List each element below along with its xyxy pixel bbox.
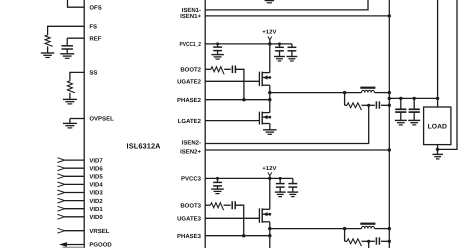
wire Q3 source to phase3 node [268, 222, 271, 231]
IC U1 ISL6312A left edge [83, 0, 85, 248]
LOAD label [428, 123, 447, 130]
svg-text:UGATE3: UGATE3 [177, 216, 202, 223]
svg-text:VID5: VID5 [89, 174, 103, 181]
LOAD box [424, 107, 451, 145]
wire VID0 with input arrow [57, 214, 84, 219]
wire OVPSEL [70, 119, 84, 124]
svg-text:BOOT2: BOOT2 [180, 67, 201, 74]
pin PVCC3 label [181, 176, 202, 183]
wire PHASE3 [205, 234, 271, 237]
svg-text:ISEN2-: ISEN2- [182, 140, 201, 147]
svg-text:UGATE2: UGATE2 [177, 79, 202, 86]
svg-text:LGATE2: LGATE2 [178, 118, 202, 125]
svg-text:PHASE3: PHASE3 [177, 233, 202, 240]
pin UGATE3 label [177, 216, 202, 223]
pin PHASE3 label [177, 233, 202, 240]
capacitor on REF pin [61, 46, 72, 54]
ground below Q2 [263, 130, 277, 135]
svg-text:VID4: VID4 [89, 182, 103, 189]
pin VRSEL label [89, 228, 109, 235]
decoupling capacitor C on PVCC1_2 [211, 44, 224, 59]
output capacitor C_out2 [408, 98, 420, 125]
wire LOAD bottom to ground [436, 145, 439, 155]
wire PHASE2 [205, 98, 271, 101]
capacitor C sense channel3 [369, 237, 391, 244]
supply +12V channel3 [262, 166, 276, 180]
transistor Q3 high-side FET channel3 [259, 208, 271, 223]
svg-text:ISL6312A: ISL6312A [127, 142, 162, 151]
svg-text:+12V: +12V [262, 29, 276, 35]
resistor R sense channel3 [345, 239, 371, 246]
IC U1 ISL6312A right edge [204, 0, 206, 248]
svg-text:FS: FS [89, 23, 97, 30]
wire PGOOD with output arrow [59, 242, 84, 247]
svg-text:VID0: VID0 [89, 214, 103, 221]
transistor Q2 low-side FET channel2 [259, 112, 271, 125]
wire phase3 to inductor L3 [270, 227, 347, 230]
resistor on SS pin [67, 81, 75, 99]
wire BOOT2 cap to phase2 node [235, 69, 245, 101]
pin LGATE2 label [178, 118, 202, 125]
pin ISEN2+ label [180, 149, 201, 156]
bulk capacitor on +12V rail B [287, 44, 298, 61]
wire VID3 with input arrow [57, 190, 84, 195]
wire ISEN1+ to output rail [205, 14, 391, 17]
wire Q1 source to phase2 node [268, 85, 271, 94]
wire ISEN1- to top edge [205, 0, 368, 10]
wire channel1 return from top edge to load ground [438, 0, 458, 149]
svg-text:VID7: VID7 [89, 157, 103, 164]
svg-text:VRSEL: VRSEL [89, 228, 109, 235]
svg-text:PHASE2: PHASE2 [177, 97, 202, 104]
pin FS label [89, 23, 97, 30]
wire UGATE2 to Q1 gate [205, 80, 259, 82]
wire VID5 with input arrow [57, 174, 84, 179]
wire VRSEL with input arrow [57, 228, 84, 233]
wire VID2 with input arrow [57, 198, 84, 203]
wire UGATE3 to Q3 gate [205, 217, 259, 219]
wire Q2 source to ground [269, 124, 271, 130]
wire VID7 with input arrow [57, 158, 84, 163]
pin UGATE2 label [177, 79, 202, 86]
bootstrap capacitor C BOOT2 [232, 66, 235, 74]
resistor on BOOT2 [211, 67, 231, 75]
pin ISEN1- label [182, 7, 201, 14]
wire output rail VOUT [388, 0, 390, 248]
pin ISEN2- label [182, 140, 201, 147]
ground below LOAD [432, 154, 443, 159]
wire OFS to top edge [68, 0, 85, 7]
wire BOOT3 cap to phase3 node [235, 205, 245, 237]
wire FS [48, 26, 85, 35]
output capacitor C_out1 [395, 98, 407, 125]
wire SS [70, 72, 84, 81]
svg-text:BOOT3: BOOT3 [180, 202, 201, 209]
resistor R sense channel2 [345, 103, 371, 110]
svg-text:PGOOD: PGOOD [89, 242, 112, 248]
wire phase3 down to bottom edge [269, 229, 271, 248]
svg-text:REF: REF [89, 35, 101, 42]
IC U1 label ISL6312A [127, 142, 162, 151]
pin OFS label [89, 4, 101, 11]
svg-text:VID2: VID2 [89, 198, 103, 205]
wire VID4 with input arrow [57, 182, 84, 187]
pin VID3 label [89, 190, 103, 197]
pin VID6 label [89, 165, 103, 172]
wire PVCC1_2 [205, 42, 270, 45]
inductor L3 [345, 224, 391, 231]
svg-text:LOAD: LOAD [428, 123, 447, 130]
wire +12V to Q3 drain [269, 178, 271, 209]
partial pin wire cut at bottom edge [63, 246, 85, 248]
svg-text:VID3: VID3 [89, 190, 103, 197]
bulk capacitor on +12V rail A [274, 44, 285, 61]
inductor L2 [345, 88, 391, 95]
wire VID1 with input arrow [57, 206, 84, 211]
pin REF label [89, 35, 101, 42]
ground of channel1 low-side FET (cut at top edge) [265, 1, 275, 3]
svg-text:PVCC3: PVCC3 [181, 176, 202, 183]
svg-text:ISEN2+: ISEN2+ [180, 149, 201, 156]
svg-text:VID1: VID1 [89, 206, 103, 213]
svg-text:SS: SS [89, 70, 97, 77]
bulk capacitor on +12V rail D [287, 178, 298, 196]
ground below REF capacitor [60, 54, 74, 59]
pin PHASE2 label [177, 97, 202, 104]
pin VID2 label [89, 198, 103, 205]
wire VID6 with input arrow [57, 166, 84, 171]
pin VID0 label [89, 214, 103, 221]
capacitor C sense channel2 [369, 101, 391, 108]
svg-text:PVCC1_2: PVCC1_2 [180, 41, 202, 48]
svg-text:ISEN1+: ISEN1+ [180, 13, 201, 20]
wire ISEN2+ to output rail [205, 148, 391, 151]
svg-text:VID6: VID6 [89, 165, 103, 172]
pin BOOT3 label [180, 202, 201, 209]
supply +12V channel2 [262, 29, 276, 45]
wire sense junction to bottom edge (ISEN3-) [368, 241, 370, 248]
svg-text:OVPSEL: OVPSEL [89, 116, 114, 123]
ground below SS resistor [63, 99, 77, 104]
wire BOOT2 [205, 68, 211, 70]
pin VID7 label [89, 157, 103, 164]
ground on OVPSEL pin [63, 123, 77, 128]
wire phase2 down to sense resistor [344, 93, 346, 106]
resistor on FS pin [45, 35, 53, 53]
pin VID1 label [89, 206, 103, 213]
resistor on BOOT3 [210, 203, 230, 211]
wire phase3 down to sense resistor [344, 229, 346, 242]
decoupling capacitor C on PVCC3 [211, 178, 224, 193]
svg-text:ISEN1-: ISEN1- [182, 7, 201, 14]
wire +12V to bulk caps channel3 [270, 177, 293, 180]
pin BOOT2 label [180, 67, 201, 74]
ground below FS resistor [41, 53, 55, 58]
wire REF [67, 38, 84, 46]
transistor Q1 high-side FET channel2 [259, 72, 271, 87]
wire phase2 to inductor L2 [270, 91, 347, 94]
wire PVCC3 [205, 177, 270, 180]
wire output rail to load [388, 97, 440, 100]
pin ISEN1+ label [180, 13, 201, 20]
bulk capacitor on +12V rail C [275, 178, 286, 196]
pin PVCC1_2 label [180, 41, 202, 48]
wire channel1 output from top edge to load node [437, 0, 439, 107]
wire phase2 node to Q2 drain [269, 93, 271, 113]
wire +12V to bulk caps [270, 42, 292, 45]
pin VID5 label [89, 174, 103, 181]
pin VID4 label [89, 182, 103, 189]
pin PGOOD label [89, 242, 112, 248]
pin OVPSEL label [89, 116, 114, 123]
wire ISEN2- to RC sense junction [205, 105, 369, 143]
wire BOOT3 [205, 204, 210, 206]
svg-text:+12V: +12V [262, 166, 276, 172]
pin SS label [89, 70, 97, 77]
svg-text:OFS: OFS [89, 4, 101, 11]
wire +12V to Q1 drain [269, 44, 271, 73]
bootstrap capacitor C BOOT3 [232, 201, 235, 209]
wire LGATE2 to Q2 gate [205, 120, 259, 122]
